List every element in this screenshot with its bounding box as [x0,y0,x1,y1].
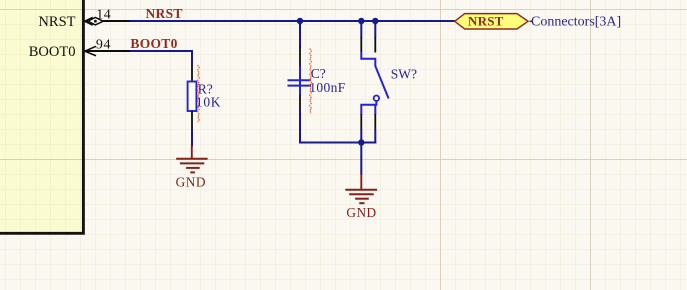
wire rail to SW pin 2 [374,21,376,38]
svg-text:14: 14 [96,7,111,22]
wire rail to C [299,21,301,48]
svg-text:GND: GND [176,174,206,189]
svg-text:NRST: NRST [38,14,75,30]
wire R to GND [191,129,193,147]
junction bottom rail [358,139,365,146]
svg-text:94: 94 [96,37,111,52]
wire to GND (SW) [360,143,362,176]
svg-text:SW?: SW? [391,66,417,81]
C? error squiggle [310,49,312,114]
designator SW? [391,66,417,81]
designator R? [198,81,213,96]
bottom rail wire [360,142,376,144]
ground GND (R) [176,146,208,190]
svg-text:NRST: NRST [468,14,504,29]
designator C? [311,66,326,81]
wire SW pin 4 to bottom rail [374,129,376,144]
svg-text:GND: GND [346,205,376,220]
svg-text:BOOT0: BOOT0 [29,44,76,60]
svg-text:C?: C? [311,66,326,81]
pin NRST name [38,14,75,30]
pin BOOT0 name [29,44,76,60]
net label BOOT0 [130,36,177,51]
svg-text:BOOT0: BOOT0 [130,36,177,51]
port reference Connectors[3A] [531,14,621,29]
R? error squiggle [198,65,200,122]
svg-text:Connectors[3A]: Connectors[3A] [531,14,621,29]
IC body U? fill (partial, left edge) [0,0,83,234]
resistor R? [188,65,197,129]
wire rail to SW pin 1 [360,21,362,38]
IC body U? border [0,0,83,233]
capacitor C? [288,48,312,111]
port NRST [455,14,532,29]
junction at C [297,18,304,25]
wire BOOT0 [130,51,192,66]
switch SW? [361,37,388,130]
junction at SW right [372,18,379,25]
pin number 14 [96,7,111,22]
wire rail to port [375,20,455,22]
pin number 94 [96,37,111,52]
wire NRST rail [130,20,455,22]
wire C to bottom rail [300,110,361,143]
value 100nF [309,80,346,95]
svg-text:100nF: 100nF [309,80,346,95]
value 10K [196,95,221,110]
pin 14 (NRST) [85,17,131,25]
net label NRST [146,6,183,21]
junction at SW left [358,18,365,25]
svg-text:10K: 10K [196,95,221,110]
svg-text:NRST: NRST [146,6,183,21]
pin 94 (BOOT0) [85,46,131,56]
ground GND (SW) [345,174,377,220]
wire SW pin 3 to bottom rail [360,129,362,143]
